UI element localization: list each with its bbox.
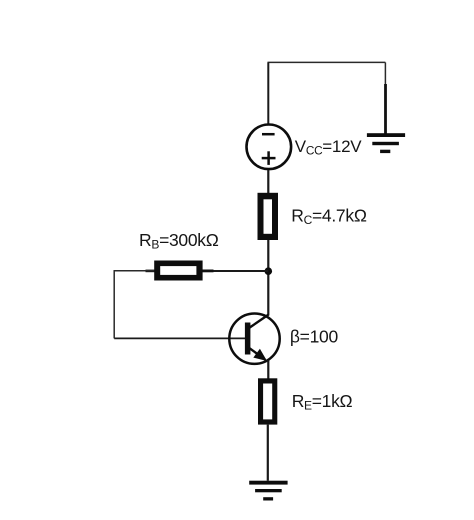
wire bottom horizontal to base (114, 337, 245, 339)
wire from RE bottom to ground (267, 425, 269, 481)
resistor RB (154, 261, 202, 281)
svg-text:β=100: β=100 (290, 326, 339, 346)
RB right lead stub (203, 269, 214, 272)
RB left lead stub (146, 270, 155, 273)
ground (bottom) (249, 481, 287, 501)
resistor RE (258, 378, 277, 424)
resistor RC (258, 193, 279, 240)
wire from emitter to RE (267, 361, 269, 380)
wire thick ground stub (384, 84, 387, 134)
wire top horizontal from source top to ground (268, 61, 386, 63)
wire vertical from top wire down to V source top (267, 62, 269, 124)
wire vertical thin from top wire down to ground stub (384, 62, 386, 86)
transistor emitter diagonal (249, 348, 265, 360)
svg-text:VCC=12V: VCC=12V (295, 137, 362, 158)
svg-text:RE=1kΩ: RE=1kΩ (292, 391, 353, 413)
voltage source V1 circle (246, 125, 291, 170)
transistor Q1 circle (229, 314, 279, 364)
wire from node left to RB (203, 270, 269, 272)
plus sign (262, 151, 276, 165)
transistor base bar (245, 323, 251, 355)
wire from RC bottom to transistor collector (267, 240, 269, 316)
emitter arrowhead (253, 349, 267, 361)
wire from V source bottom to RC (267, 170, 269, 194)
svg-text:RC=4.7kΩ: RC=4.7kΩ (291, 205, 367, 227)
minus sign (262, 133, 275, 136)
transistor collector diagonal (249, 315, 268, 328)
ground (top right) (367, 133, 405, 153)
node junction dot (265, 267, 273, 275)
wire left vertical (113, 271, 115, 339)
wire from RB left to corner (114, 270, 155, 272)
svg-text:RB=300kΩ: RB=300kΩ (139, 230, 219, 252)
